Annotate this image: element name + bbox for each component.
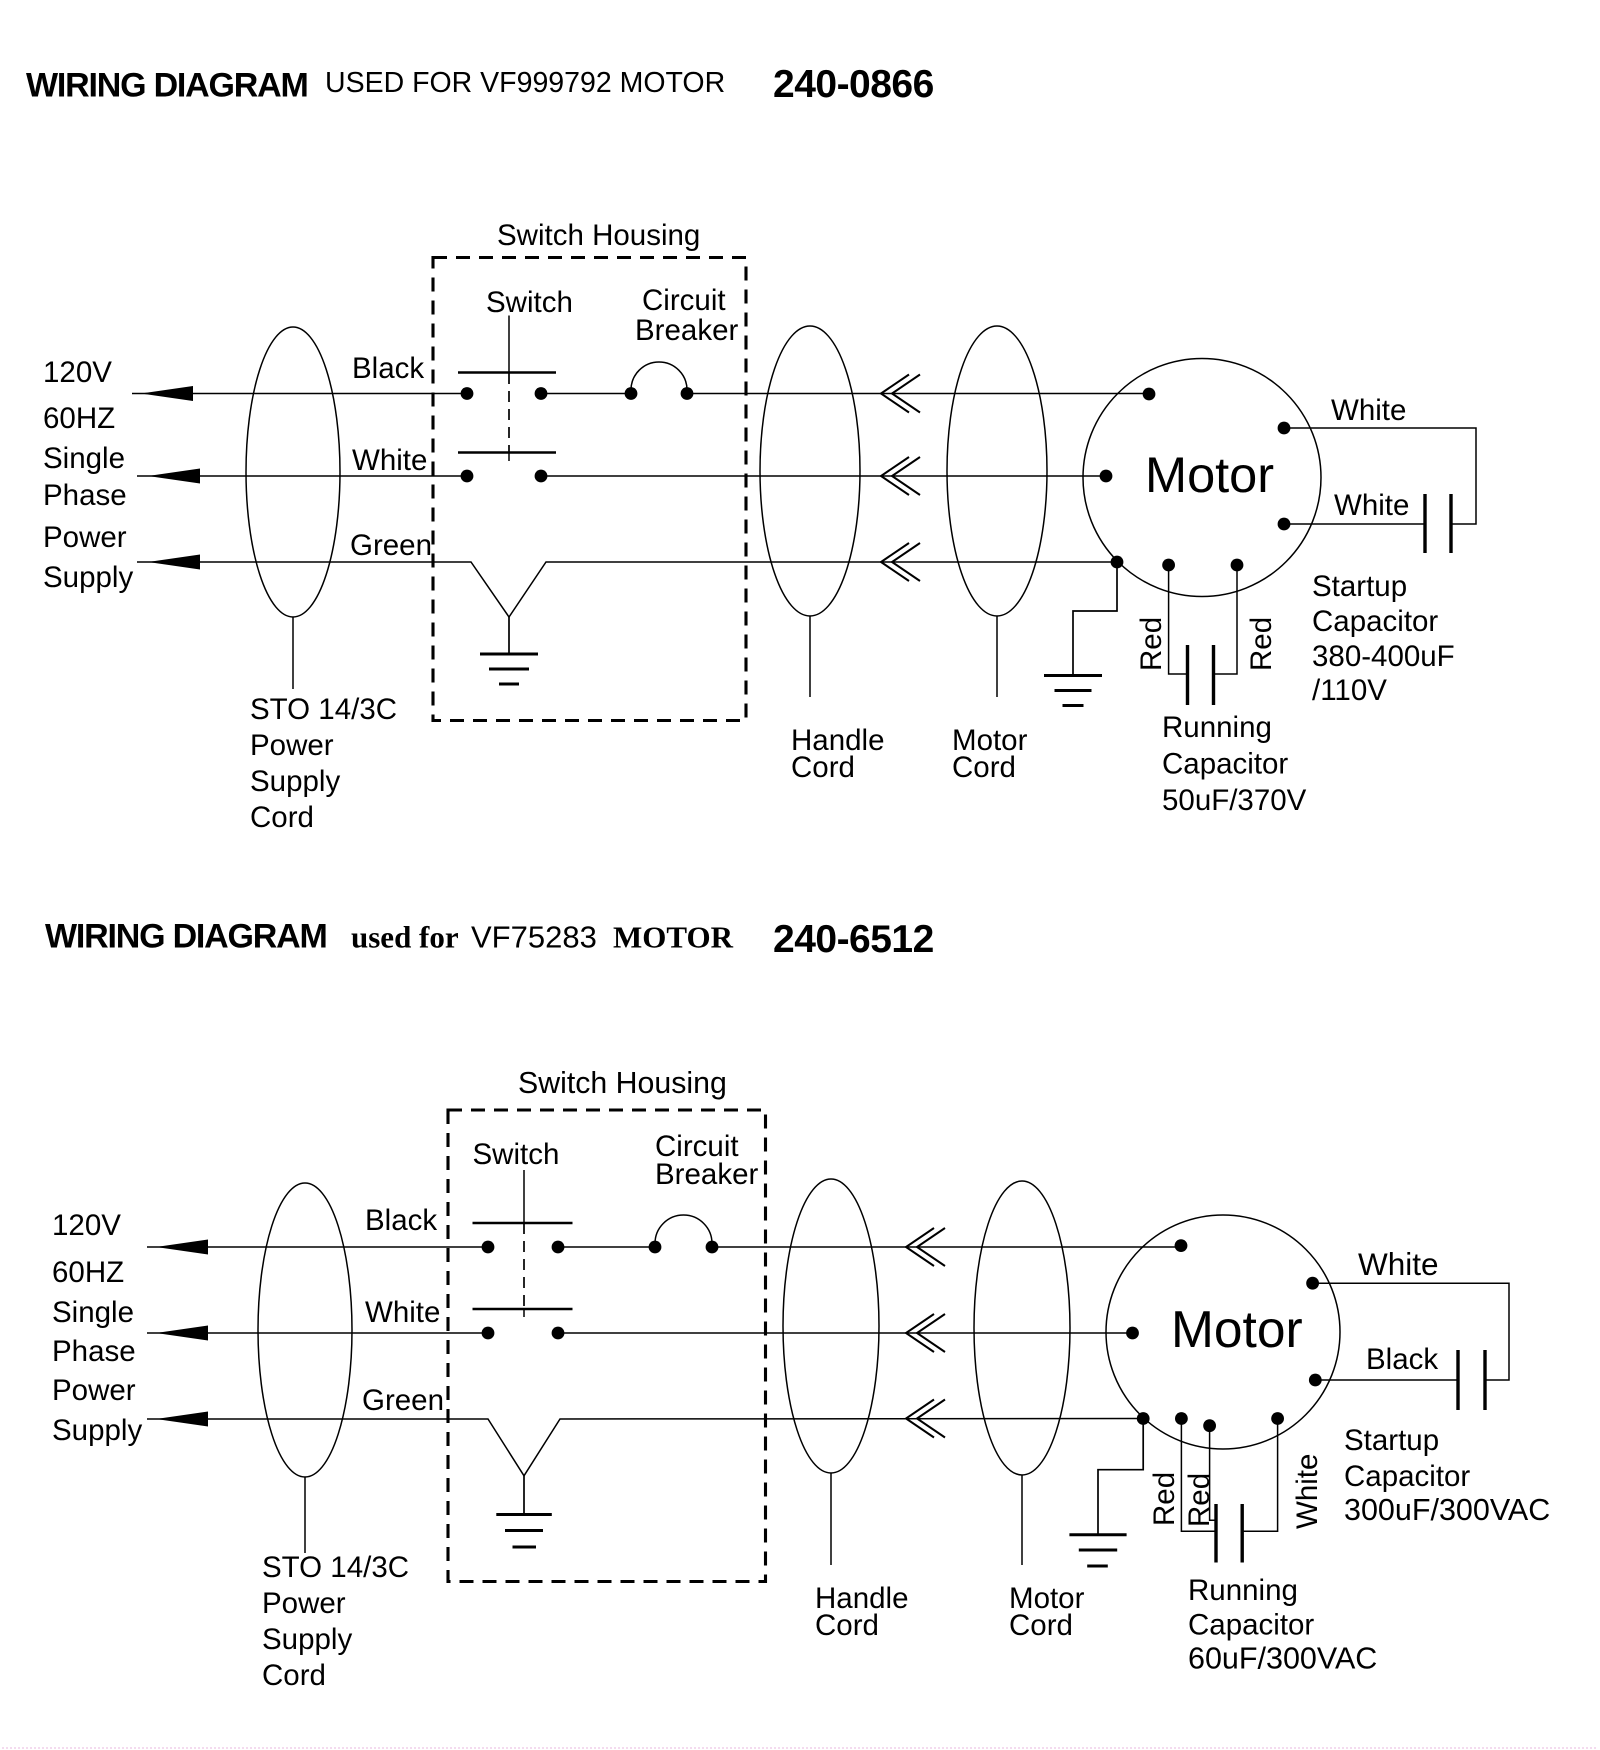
svg-text:Red: Red <box>1135 617 1168 671</box>
svg-text:USED FOR VF999792 MOTOR: USED FOR VF999792 MOTOR <box>325 67 725 99</box>
label Motor Cord B <box>1009 1582 1085 1642</box>
motor M1 circle <box>1083 359 1321 597</box>
wire green supply (left + V notch B) <box>147 1419 1143 1476</box>
svg-text:Single: Single <box>43 442 125 475</box>
chevrons on green wire <box>881 543 920 581</box>
svg-text:Supply: Supply <box>262 1623 352 1656</box>
svg-text:/110V: /110V <box>1312 674 1387 707</box>
switch S2 stub below pole 2 <box>523 1309 525 1317</box>
svg-text:Red: Red <box>1183 1473 1216 1527</box>
wire white to startup capacitor (top B) <box>1313 1283 1509 1380</box>
switch S1 actuator <box>508 316 510 373</box>
ground (switch housing) <box>480 617 538 684</box>
motor M2 circle <box>1106 1215 1340 1449</box>
svg-text:Switch Housing: Switch Housing <box>518 1067 727 1100</box>
svg-text:Cord: Cord <box>815 1609 879 1642</box>
chevrons on white wire <box>881 457 920 495</box>
node motor terminal black B <box>1175 1239 1188 1252</box>
switch housing dashed box <box>433 258 746 721</box>
svg-text:WIRING DIAGRAM: WIRING DIAGRAM <box>26 67 308 105</box>
node motor terminal startup top B <box>1306 1277 1319 1290</box>
svg-text:Power: Power <box>43 521 127 554</box>
power supply cord ellipse B <box>258 1183 352 1477</box>
node motor terminal startup bottom B <box>1309 1374 1322 1387</box>
svg-text:Cord: Cord <box>791 751 855 784</box>
arrow green line <box>148 555 200 570</box>
svg-text:Red: Red <box>1148 1472 1181 1526</box>
svg-text:Power: Power <box>250 729 334 762</box>
wire black supply (left B) <box>147 1246 488 1248</box>
node motor terminal startup top <box>1278 422 1291 435</box>
svg-text:380-400uF: 380-400uF <box>1312 640 1455 673</box>
svg-text:Startup: Startup <box>1312 570 1407 603</box>
arrow green line B <box>156 1412 208 1427</box>
chevrons on black wire <box>881 375 920 413</box>
node motor terminal green/ground <box>1111 556 1124 569</box>
node white switch terminals B <box>482 1327 495 1340</box>
svg-text:Black: Black <box>1366 1343 1438 1376</box>
wire white supply (left) <box>137 475 467 477</box>
svg-text:120V: 120V <box>43 356 112 389</box>
label STO 14/3C Power Supply Cord B <box>262 1551 409 1692</box>
wire red right to running capacitor <box>1214 571 1238 674</box>
svg-text:Red: Red <box>1245 617 1278 671</box>
wire white bottom to running capacitor B <box>1242 1424 1277 1531</box>
svg-text:White: White <box>1291 1454 1324 1529</box>
svg-text:Capacitor: Capacitor <box>1312 605 1438 638</box>
power supply cord ellipse <box>246 327 340 617</box>
svg-text:Power: Power <box>52 1374 136 1407</box>
node motor terminal black <box>1143 388 1156 401</box>
svg-text:Phase: Phase <box>52 1335 136 1368</box>
switch S2 pole 2 bar <box>473 1308 573 1311</box>
node motor terminal white bottom B <box>1271 1412 1284 1425</box>
node motor terminal red 2 B <box>1203 1419 1216 1432</box>
svg-text:Single: Single <box>52 1296 134 1329</box>
node 120V supply labels (B) <box>52 1209 142 1447</box>
switch S2 mechanical link (dashed) <box>523 1223 525 1309</box>
svg-text:Startup: Startup <box>1344 1424 1439 1457</box>
wire red 1 to running capacitor B <box>1181 1424 1216 1531</box>
svg-text:60uF/300VAC: 60uF/300VAC <box>1188 1642 1377 1676</box>
svg-text:White: White <box>352 444 427 477</box>
svg-text:Motor: Motor <box>1171 1300 1303 1358</box>
motor cord tail B <box>1021 1475 1023 1565</box>
handle cord tail B <box>830 1473 832 1565</box>
node motor terminal red 1 B <box>1175 1412 1188 1425</box>
node black switch terminals <box>461 387 474 400</box>
svg-text:Cord: Cord <box>952 751 1016 784</box>
motor cord ellipse B <box>974 1181 1070 1475</box>
svg-text:STO 14/3C: STO 14/3C <box>262 1551 409 1584</box>
chevrons on white wire B <box>906 1314 945 1352</box>
node motor terminal green/ground B <box>1137 1412 1150 1425</box>
switch S1 stub below pole 2 <box>508 453 510 462</box>
wire black (breaker to motor B) <box>712 1246 1181 1248</box>
svg-text:Capacitor: Capacitor <box>1162 748 1288 781</box>
wire red left to running capacitor <box>1169 571 1188 674</box>
wire black to startup capacitor (bottom B) <box>1315 1379 1458 1381</box>
node 120V supply labels <box>43 356 133 594</box>
ground (motor) <box>1044 568 1117 706</box>
switch S2 pole 1 bar <box>473 1222 573 1225</box>
svg-text:Cord: Cord <box>250 801 314 834</box>
arrow black line <box>141 386 193 401</box>
svg-text:Running: Running <box>1162 711 1272 744</box>
label Motor Cord <box>952 724 1028 784</box>
svg-text:STO 14/3C: STO 14/3C <box>250 693 397 726</box>
svg-text:Breaker: Breaker <box>635 314 738 347</box>
svg-text:300uF/300VAC: 300uF/300VAC <box>1344 1493 1550 1527</box>
capacitor C2 running plates <box>1188 645 1214 705</box>
arrow black line B <box>156 1240 208 1255</box>
svg-text:Power: Power <box>262 1587 346 1620</box>
svg-text:White: White <box>1334 489 1409 522</box>
node motor terminal red left <box>1162 559 1175 572</box>
wire white (switch to motor) <box>541 475 1106 477</box>
label Handle Cord B <box>815 1582 908 1642</box>
capacitor C1 startup plates <box>1425 494 1451 553</box>
svg-text:Cord: Cord <box>262 1659 326 1692</box>
handle cord ellipse B <box>783 1179 879 1473</box>
wire red 2 to running capacitor B <box>1210 1431 1216 1520</box>
svg-text:Green: Green <box>350 529 432 562</box>
arrow white line B <box>156 1326 208 1341</box>
ground (motor B) <box>1069 1424 1143 1566</box>
wire white supply (left B) <box>147 1332 488 1334</box>
wire white (switch to motor B) <box>558 1332 1133 1334</box>
svg-text:Capacitor: Capacitor <box>1344 1460 1470 1493</box>
switch S1 pole 1 bar <box>458 371 556 374</box>
wire green supply (left + V notch to ground) <box>137 562 1117 617</box>
switch S1 pole 2 bar <box>458 451 556 454</box>
svg-text:Switch Housing: Switch Housing <box>497 219 700 252</box>
svg-text:White: White <box>365 1296 440 1329</box>
svg-text:Supply: Supply <box>250 765 340 798</box>
label STO 14/3C Power Supply Cord <box>250 693 397 834</box>
switch S2 actuator <box>523 1170 525 1223</box>
svg-text:Supply: Supply <box>43 561 133 594</box>
motor cord ellipse <box>947 326 1047 616</box>
svg-text:White: White <box>1358 1246 1439 1282</box>
svg-text:240-0866: 240-0866 <box>773 63 934 106</box>
page separator dotted line <box>2 1747 1598 1749</box>
svg-text:White: White <box>1331 394 1406 427</box>
svg-text:60HZ: 60HZ <box>52 1256 124 1289</box>
node black switch terminals B <box>482 1241 495 1254</box>
label Startup Capacitor 380-400uF /110V <box>1312 570 1455 707</box>
wire black (breaker to motor) <box>687 393 1149 395</box>
svg-text:Black: Black <box>365 1204 437 1237</box>
circuit breaker CB2 <box>649 1215 719 1253</box>
svg-text:Switch: Switch <box>473 1138 560 1171</box>
chevrons on black wire B <box>906 1228 945 1266</box>
wire black supply (left) <box>132 393 467 395</box>
label Running Capacitor 60uF/300VAC <box>1188 1574 1377 1676</box>
node motor terminal startup bottom <box>1278 518 1291 531</box>
svg-text:Capacitor: Capacitor <box>1188 1609 1314 1642</box>
svg-text:60HZ: 60HZ <box>43 402 115 435</box>
svg-text:Cord: Cord <box>1009 1609 1073 1642</box>
power cord tail <box>292 617 294 689</box>
handle cord tail <box>809 616 811 697</box>
svg-text:Black: Black <box>352 352 424 385</box>
switch housing dashed box B <box>448 1110 766 1582</box>
capacitor C3 startup plates B <box>1458 1350 1485 1410</box>
svg-text:WIRING DIAGRAM: WIRING DIAGRAM <box>45 918 327 956</box>
arrow white line <box>148 469 200 484</box>
svg-text:VF75283: VF75283 <box>471 920 597 955</box>
svg-text:Breaker: Breaker <box>655 1158 758 1191</box>
svg-text:Switch: Switch <box>486 286 573 319</box>
svg-text:Supply: Supply <box>52 1414 142 1447</box>
svg-text:120V: 120V <box>52 1209 121 1242</box>
svg-text:Motor: Motor <box>1145 446 1274 503</box>
switch mechanical link (dashed) <box>508 373 510 452</box>
label Startup Capacitor 300uF/300VAC <box>1344 1424 1550 1527</box>
svg-text:Green: Green <box>362 1384 444 1417</box>
svg-text:Phase: Phase <box>43 479 127 512</box>
svg-text:240-6512: 240-6512 <box>773 918 934 961</box>
svg-text:used for: used for <box>351 920 459 955</box>
chevrons on green wire B <box>906 1400 945 1438</box>
svg-text:50uF/370V: 50uF/370V <box>1162 784 1307 817</box>
svg-text:Circuit: Circuit <box>642 284 726 317</box>
handle cord ellipse <box>760 326 860 616</box>
wire black (switch to breaker B) <box>558 1246 655 1248</box>
label Handle Cord <box>791 724 884 784</box>
power cord tail B <box>304 1477 306 1553</box>
node motor terminal white mid <box>1100 470 1113 483</box>
wire black (switch to breaker) <box>541 393 631 395</box>
node white switch terminals <box>461 470 474 483</box>
svg-text:MOTOR: MOTOR <box>613 920 734 955</box>
wire white to startup capacitor (bottom) <box>1284 523 1425 525</box>
circuit breaker CB1 <box>625 362 694 400</box>
capacitor C4 running plates B <box>1216 1504 1242 1563</box>
motor cord tail <box>996 616 998 697</box>
svg-text:Running: Running <box>1188 1574 1298 1607</box>
ground (switch housing B) <box>496 1476 552 1547</box>
node motor terminal white mid B <box>1126 1327 1139 1340</box>
wire white to startup capacitor (top) <box>1284 428 1476 524</box>
node motor terminal red right <box>1231 559 1244 572</box>
label Running Capacitor 50uF/370V <box>1162 711 1307 817</box>
